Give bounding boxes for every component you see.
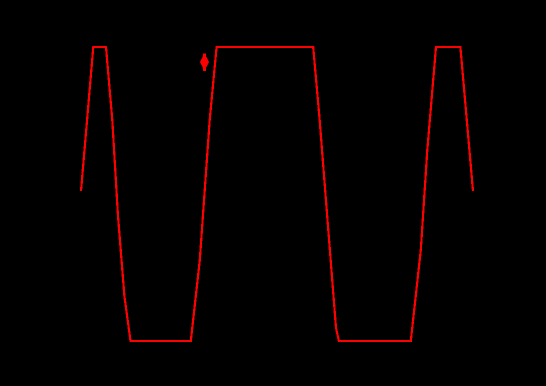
node marker: filled diamond <box>200 53 209 70</box>
node marker: vertical error bar <box>203 53 206 71</box>
wire red waveform trace <box>81 47 473 341</box>
